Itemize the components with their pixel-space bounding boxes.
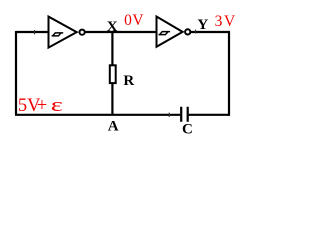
wire bottom from left corner to capacitor	[15, 114, 180, 116]
Schmitt inverter 1 output bubble	[80, 30, 85, 35]
svg-text:5V+: 5V+	[18, 96, 47, 116]
Schmitt inverter 2 triangle	[157, 17, 183, 47]
wire node X vertical through resistor to node A	[111, 32, 113, 115]
resistor R body	[110, 65, 116, 83]
wire left vertical (feedback)	[15, 31, 17, 115]
Schmitt inverter 1 triangle	[49, 17, 77, 48]
capacitor C plates	[181, 107, 188, 122]
wire from inverter 1 output to inverter 2 input	[85, 31, 157, 33]
Schmitt inverter 2 output bubble	[185, 29, 190, 34]
junction tick	[195, 30, 197, 34]
svg-text:R: R	[123, 73, 134, 89]
svg-text:C: C	[182, 122, 193, 138]
wire top-left feedback to inverter 1 input	[16, 31, 49, 33]
wire bottom from capacitor to right corner	[189, 114, 229, 116]
svg-text:Y: Y	[197, 17, 208, 33]
junction tick	[34, 30, 36, 34]
svg-text:ε: ε	[51, 96, 63, 116]
Schmitt inverter 2 hysteresis symbol	[159, 32, 171, 35]
junction tick	[168, 113, 170, 117]
svg-text:0V: 0V	[124, 12, 144, 29]
wire right vertical from Y down	[228, 32, 230, 116]
svg-text:3V: 3V	[215, 13, 237, 30]
svg-text:A: A	[108, 119, 119, 135]
svg-text:X: X	[107, 19, 118, 35]
wire top-right from inverter 2 output to corner	[191, 31, 230, 33]
Schmitt inverter 1 hysteresis symbol	[52, 33, 64, 36]
